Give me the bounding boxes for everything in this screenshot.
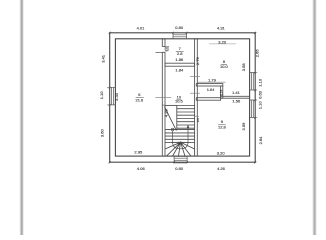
svg-text:3.58: 3.58	[241, 63, 246, 72]
svg-text:4.26: 4.26	[217, 166, 226, 171]
svg-text:1.41: 1.41	[232, 90, 241, 95]
svg-text:3.20: 3.20	[217, 151, 226, 156]
svg-text:2.64: 2.64	[258, 136, 263, 145]
svg-text:1.10: 1.10	[258, 78, 263, 87]
svg-text:12.8: 12.8	[218, 124, 227, 129]
svg-text:3.59: 3.59	[241, 122, 246, 131]
svg-text:2.95: 2.95	[134, 150, 143, 155]
svg-text:3.41: 3.41	[100, 54, 105, 63]
svg-text:2.79: 2.79	[195, 57, 200, 66]
svg-text:4.01: 4.01	[137, 25, 146, 30]
svg-text:1.64: 1.64	[207, 87, 216, 92]
svg-text:21.6: 21.6	[136, 97, 145, 102]
svg-text:4.06: 4.06	[137, 166, 146, 171]
svg-text:2.65: 2.65	[254, 49, 259, 58]
svg-text:1.79: 1.79	[208, 78, 217, 83]
svg-text:4.31: 4.31	[217, 25, 226, 30]
svg-text:2.8: 2.8	[177, 51, 183, 56]
svg-text:1.10: 1.10	[99, 91, 104, 100]
svg-text:0.74: 0.74	[220, 89, 224, 95]
svg-text:4.38: 4.38	[164, 109, 169, 118]
svg-text:1.10: 1.10	[258, 101, 263, 110]
svg-text:3.60: 3.60	[100, 129, 105, 138]
svg-text:10.5: 10.5	[175, 99, 184, 104]
svg-text:1.86: 1.86	[175, 57, 184, 62]
svg-text:3.33: 3.33	[114, 92, 119, 101]
svg-text:0.63: 0.63	[258, 90, 263, 99]
svg-text:3.20: 3.20	[218, 39, 227, 44]
svg-text:1.84: 1.84	[175, 67, 184, 72]
svg-text:0.52: 0.52	[165, 46, 168, 51]
svg-text:0.80: 0.80	[175, 166, 184, 171]
svg-text:0.9: 0.9	[196, 118, 200, 122]
svg-text:0.80: 0.80	[175, 25, 184, 30]
svg-text:1.56: 1.56	[232, 98, 241, 103]
